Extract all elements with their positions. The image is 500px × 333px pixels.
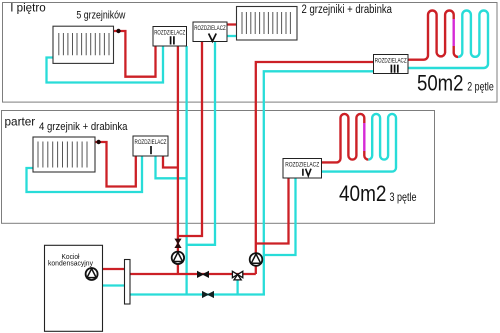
svg-text:50m2: 50m2 [417,71,464,96]
pump 2 [250,253,263,266]
wire cyan return radiator C to rozdzielacz I [27,156,143,192]
hydraulic separator [125,260,131,305]
wire red jumper rozdzielacz V branch [178,42,202,237]
rozdzielacz IV [283,159,322,179]
svg-text:4 grzejnik + drabinka: 4 grzejnik + drabinka [39,121,128,133]
floor loop 40m2 red lower part [364,151,368,160]
svg-text:I piętro: I piętro [10,1,46,15]
wire red rozdzielacz V to radiator B [227,23,237,25]
floor loop 50m2 red part [408,10,454,59]
valve on cyan main [203,292,214,298]
svg-text:ROZDZIELACZ: ROZDZIELACZ [154,31,185,37]
svg-text:parter: parter [5,114,36,128]
svg-text:2 grzejniki + drabinka: 2 grzejniki + drabinka [302,4,393,16]
rozdzielacz II [153,27,187,47]
wire cyan jumper rozdzielacz IV branch [264,178,296,255]
svg-text:ROZDZIELACZ: ROZDZIELACZ [285,163,319,169]
floor loop 40m2 red part [322,114,365,162]
wire red supply radiator C to rozdzielacz I [95,142,136,187]
floor loop 40m2 magenta segment [363,123,365,151]
svg-text:3 pętle: 3 pętle [390,190,417,204]
wire red riser rozdzielacz II to pump 1 [177,46,179,274]
wire red jumper rozdzielacz IV branch [256,178,289,244]
wire cyan boiler to separator [102,284,125,286]
svg-text:kondensacyjny: kondensacyjny [48,260,93,267]
svg-text:2 pętle: 2 pętle [467,79,494,93]
pump 1 [172,252,184,264]
boiler box [45,245,103,331]
section box parter [2,111,435,224]
node B junction dot [96,140,100,144]
section box I pietro [3,3,498,103]
wire cyan return radiator A to rozdzielacz II [47,46,164,83]
svg-text:5 grzejników: 5 grzejników [76,10,125,22]
floor loop 40m2 cyan part [322,114,397,172]
radiator A [53,26,114,63]
wire red boiler to separator [102,268,125,270]
valve on red main [198,272,209,278]
floor loop 50m2 red lower part [454,46,458,57]
rozdzielacz III [374,55,409,74]
wire cyan return rozdzielacz III to return main [264,71,374,294]
wire red main supply [130,273,256,275]
wire cyan radiator B to rozdzielacz V [227,35,237,37]
wire red supply riser rozdzielacz III from pump 2 [256,62,374,274]
wire cyan stub rozdzielacz I to riser [156,156,187,178]
wire cyan mixing valve bypass [236,276,238,295]
wire cyan riser rozdzielacz II to return main [185,46,187,295]
check valve above pump 1 [175,239,180,247]
mixing valve [232,271,242,280]
svg-text:ROZDZIELACZ: ROZDZIELACZ [135,140,167,146]
radiator C [33,137,95,172]
wire cyan jumper rozdzielacz V branch [187,42,215,245]
wire red supply radiator A to rozdzielacz II [114,31,156,77]
svg-text:ROZDZIELACZ: ROZDZIELACZ [375,59,407,65]
wire red stub rozdzielacz I to riser [163,156,178,168]
wire cyan return main [130,293,265,295]
rozdzielacz V [193,22,227,42]
svg-text:ROZDZIELACZ: ROZDZIELACZ [194,26,226,32]
floor loop 50m2 cyan part [408,10,488,68]
rozdzielacz I [133,136,168,156]
pump boiler [86,268,98,280]
radiator B [237,7,298,41]
floor loop 50m2 magenta segment [453,19,455,46]
node A junction dot [116,29,120,33]
svg-text:40m2: 40m2 [339,181,387,206]
